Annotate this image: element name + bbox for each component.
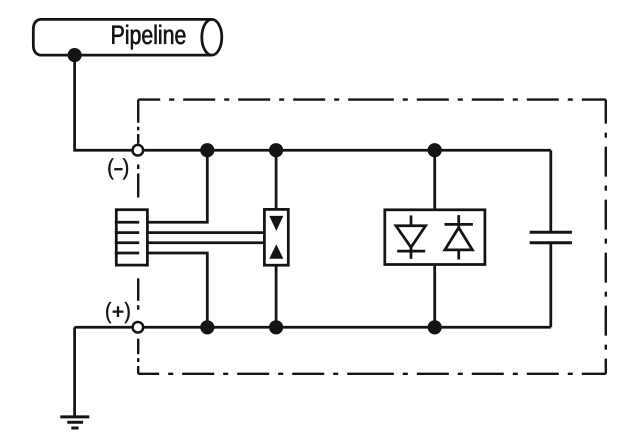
terminal (-)	[133, 145, 144, 156]
label (+)	[106, 302, 129, 323]
wire: arrester F1 to positive rail	[275, 265, 278, 327]
wire: TB1 pin2 to arrester F1	[147, 231, 264, 234]
wire: capacitor C1 to positive rail	[549, 243, 552, 328]
junction J6 (positive rail / diode branch)	[428, 320, 442, 334]
junction J4 (positive rail / TB1 branch)	[200, 320, 214, 334]
surge arrester F1 (bidirectional)	[264, 209, 288, 265]
diode V1a (cathode down)	[396, 215, 426, 258]
pipeline label	[112, 25, 185, 50]
ground	[60, 417, 89, 428]
wire: negative rail to arrester F1	[275, 150, 278, 209]
wire: TB1 pin1 to negative rail	[147, 150, 207, 222]
wire: ground riser	[73, 327, 76, 415]
junction J5 (positive rail / arrester branch)	[269, 320, 283, 334]
label (-)	[108, 158, 128, 179]
wire: negative rail to capacitor C1	[549, 150, 552, 232]
pipeline P1 (cylinder)	[33, 19, 222, 55]
capacitor C1	[530, 232, 572, 242]
diode pair box V1	[385, 210, 485, 265]
negative rail wire	[138, 149, 551, 152]
terminal (+)	[133, 322, 144, 333]
junction: pipeline tap	[68, 48, 82, 62]
junction J3 (negative rail / diode branch)	[428, 143, 442, 157]
positive rail wire	[75, 326, 551, 329]
junction J1 (negative rail / TB1 branch)	[200, 143, 214, 157]
wire: TB1 pin3 to arrester F1	[147, 241, 264, 244]
wire: pipeline drop to (-) terminal	[75, 55, 138, 150]
enclosure boundary (dash-dot box)	[138, 100, 606, 374]
terminal block TB1	[115, 210, 148, 265]
wire: negative rail to diode box V1	[433, 150, 436, 210]
wire: TB1 pin4 to positive rail	[147, 253, 207, 327]
diode V1b (cathode up)	[445, 215, 473, 259]
wire: diode box V1 to positive rail	[433, 265, 436, 328]
junction J2 (negative rail / arrester branch)	[269, 143, 283, 157]
